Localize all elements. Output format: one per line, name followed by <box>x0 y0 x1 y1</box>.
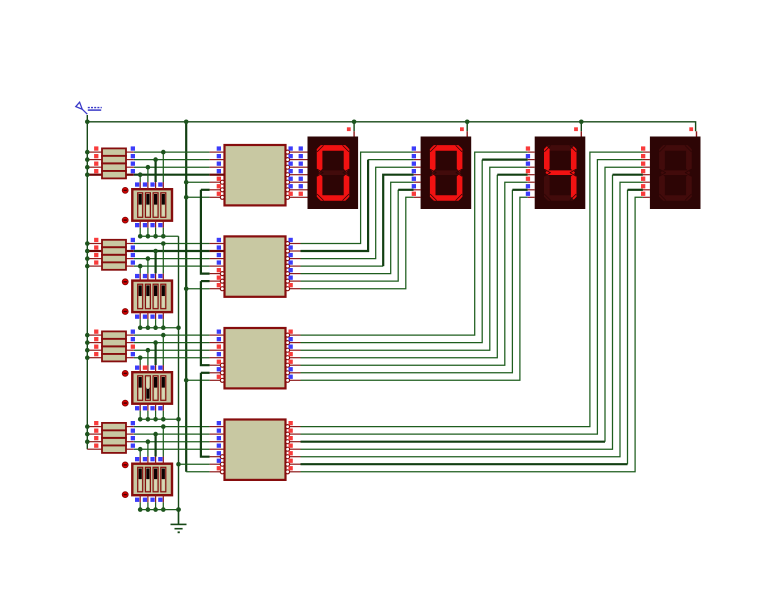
wire: input line D4 resistor to decoder <box>134 448 210 450</box>
resistor R3 <box>87 164 134 171</box>
wire: U2 output A to display DS2 segment <box>301 152 414 243</box>
resistor R2 <box>87 156 134 163</box>
resistor R12 <box>87 354 134 361</box>
junction: top rail / display DS2 <box>465 120 470 125</box>
junction: left rail / R6 <box>85 249 90 254</box>
pin 9 of U4 (output B) <box>286 429 301 437</box>
junction: top rail / power drop <box>184 120 189 125</box>
wire: input line A2 resistor to decoder <box>134 243 210 245</box>
junction: DIP SW1 pin 4 / input line <box>161 150 166 155</box>
wire: U2 pin7 to power rail <box>186 288 209 290</box>
wire: DIP SW4 pin 8 to ground bus <box>162 495 164 509</box>
wire: U1 output F to display DS1 segment <box>300 189 302 191</box>
wire: DIP SW4 pin 2 to input line <box>147 442 149 464</box>
wire: top horizontal power rail <box>87 122 695 132</box>
wire: U3 output C to display DS3 segment <box>301 167 528 350</box>
wire: ripple blanking chain into U3 pin5 <box>201 281 210 365</box>
pin 3 of U3 (left) <box>210 345 225 351</box>
wire: DIP SW2 pin 6 to ground bus <box>147 312 149 328</box>
wire: ripple blanking chain into U2 pin5 <box>201 190 210 274</box>
pin 5 of U1 (left) <box>210 177 225 185</box>
DIP switch SW4 actuator buttons <box>122 462 128 498</box>
wire: input line D1 resistor to decoder <box>134 174 210 176</box>
junction: left rail / R14 <box>85 432 90 437</box>
junction: DIP SW2 pin 1 / input line <box>138 264 143 269</box>
wire: U1 output B to display DS1 segment <box>300 159 302 161</box>
wire: input line B1 resistor to decoder <box>134 159 210 161</box>
node: DIP SW4 bottom state squares <box>135 498 163 502</box>
pin 14 of U1 (output G) <box>286 192 301 200</box>
wire: U3 output A to display DS3 segment <box>301 152 528 335</box>
pin 10 of U3 (output C) <box>286 345 301 353</box>
junction: DIP SW4 pin 5 / ground bus <box>138 507 143 512</box>
junction: left rail / R13 <box>85 424 90 429</box>
pin 7 of U4 (left) <box>210 466 225 474</box>
node: resistor input state squares group 4 <box>94 421 98 448</box>
wire: input line C2 resistor to decoder <box>134 258 210 260</box>
junction: top rail / display DS1 <box>352 120 357 125</box>
pin 9 of U2 (output B) <box>286 245 301 253</box>
pin 2 of U3 (left) <box>210 337 225 343</box>
7-segment display DS1 <box>308 137 359 210</box>
pin 9 of U1 (output B) <box>286 154 301 162</box>
wire: DIP SW1 pin 2 to input line <box>147 167 149 189</box>
pin 1 of U3 (left) <box>210 330 225 336</box>
pin 11 of U1 (output D) <box>286 169 301 177</box>
node: display DS3 segment pin stubs <box>526 146 535 197</box>
node: DIP SW2 bottom state squares <box>135 315 163 319</box>
junction: left rail / R15 <box>85 439 90 444</box>
wire: input line A1 resistor to decoder <box>134 151 210 153</box>
wire: U3 pin7 to power rail <box>186 379 209 381</box>
7-segment display DS4 <box>650 137 701 210</box>
pin 12 of U3 (output E) <box>286 360 301 368</box>
resistor R8 <box>87 262 134 269</box>
wire: DIP SW2 pin 2 to input line <box>147 259 149 281</box>
junction: DIP SW1 pin 8 / ground bus <box>161 234 166 239</box>
junction: DIP SW3 pin 1 / input line <box>138 355 143 360</box>
wire: U4 output F to display DS4 segment <box>301 190 643 464</box>
decoder IC U2 (BCD to 7-segment) <box>225 236 286 296</box>
resistor R6 <box>87 247 134 254</box>
wire: DIP SW2 pin 3 to input line <box>155 251 157 281</box>
node: DIP SW3 top state squares <box>135 366 163 370</box>
junction: DIP SW4 pin 6 / ground bus <box>146 507 151 512</box>
wire: U1 pin7 to power rail <box>186 196 209 198</box>
junction: left rail / R1 <box>85 150 90 155</box>
node: DIP SW1 bottom state squares <box>135 223 163 227</box>
junction: DIP SW2 pin 5 / ground bus <box>138 325 143 330</box>
pin 4 of U4 (left) <box>210 444 225 450</box>
wire: U4 pin6 to ground rail <box>179 463 210 465</box>
wire: DIP SW3 pin 6 to ground bus <box>147 404 149 420</box>
wire: U3 output B to display DS3 segment <box>301 160 528 343</box>
pin 2 of U2 (left) <box>210 245 225 251</box>
wire: U4 output A to display DS4 segment <box>301 152 643 427</box>
pin 11 of U3 (output D) <box>286 352 301 360</box>
node: resistor input state squares group 1 <box>94 146 98 173</box>
junction: DIP SW2 pin 7 / ground bus <box>153 325 158 330</box>
node: resistor output state squares group 3 <box>131 330 135 357</box>
junction: left rail / R8 <box>85 264 90 269</box>
pin 1 of U2 (left) <box>210 238 225 244</box>
pin 6 of U2 (left) <box>210 276 225 284</box>
junction: left rail / R4 <box>85 172 90 177</box>
pin 14 of U3 (output G) <box>286 375 301 383</box>
wire: U2 output B to display DS2 segment <box>301 160 414 251</box>
resistor R9 <box>87 331 134 338</box>
pin 3 of U1 (left) <box>210 162 225 168</box>
DIP switch SW1 actuator buttons <box>122 188 128 224</box>
wire: DIP SW3 pin 1 to input line <box>139 358 141 373</box>
pin 5 of U3 (left) <box>210 360 225 368</box>
wire: DIP SW4 pin 7 to ground bus <box>155 495 157 509</box>
wire: U1 output E to display DS1 segment <box>300 181 302 183</box>
wire: DIP SW3 pin 4 to input line <box>162 335 164 372</box>
wire: display DS1 common anode to top rail <box>347 122 354 137</box>
wire: U1 output G to display DS1 segment <box>300 196 302 198</box>
DIP switch SW2 <box>132 281 172 313</box>
junction: top rail / display DS3 <box>579 120 584 125</box>
wire: input line C4 resistor to decoder <box>134 441 210 443</box>
wire: U4 output C to display DS4 segment <box>301 167 643 442</box>
wire: U4 output B to display DS4 segment <box>301 160 643 435</box>
wire: DIP SW3 pin 3 to input line <box>155 343 157 373</box>
wire: DIP SW2 ground bus horizontal <box>140 327 178 329</box>
junction: left rail / R2 <box>85 157 90 162</box>
junction: DIP SW1 pin 2 / input line <box>146 165 151 170</box>
wire: U3 output D to display DS3 segment <box>301 175 528 358</box>
wire: U4 output E to display DS4 segment <box>301 182 643 457</box>
voltage probe <box>76 102 88 114</box>
wire: DIP SW1 pin 6 to ground bus <box>147 221 149 237</box>
junction: DIP SW4 pin 3 / input line <box>153 432 158 437</box>
junction: DIP SW1 pin 6 / ground bus <box>146 234 151 239</box>
wire: DIP SW2 pin 7 to ground bus <box>155 312 157 328</box>
wire: U3 output E to display DS3 segment <box>301 182 528 365</box>
junction: left rail / R7 <box>85 256 90 261</box>
pin 13 of U3 (output F) <box>286 367 301 375</box>
wire: DIP SW3 ground bus horizontal <box>140 418 178 420</box>
wire: DIP SW1 pin 1 to input line <box>139 175 141 190</box>
wire: DIP SW4 pin 6 to ground bus <box>147 495 149 509</box>
pin 7 of U1 (left) <box>210 192 225 200</box>
junction: left rail / R5 <box>85 241 90 246</box>
pin 6 of U1 (left) <box>210 184 225 192</box>
junction: DIP SW3 pin 7 / ground bus <box>153 417 158 422</box>
wire: DIP SW4 pin 4 to input line <box>162 427 164 464</box>
pin 1 of U4 (left) <box>210 421 225 427</box>
DIP switch SW3 actuator buttons <box>122 371 128 407</box>
pin 14 of U4 (output G) <box>286 466 301 474</box>
junction: left rail / R11 <box>85 348 90 353</box>
wire: U2 output C to display DS2 segment <box>301 167 414 258</box>
pin 2 of U4 (left) <box>210 429 225 435</box>
pin 14 of U2 (output G) <box>286 283 301 291</box>
junction: ground bus 3 / ground rail <box>176 417 181 422</box>
pin 12 of U2 (output E) <box>286 268 301 276</box>
junction: ground bus 2 / ground rail <box>176 325 181 330</box>
junction: DIP SW4 pin 1 / input line <box>138 447 143 452</box>
node: resistor output state squares group 4 <box>131 421 135 448</box>
wire: input line B3 resistor to decoder <box>134 342 210 344</box>
wire: U2 output G to display DS2 segment <box>301 197 414 288</box>
probe net label <box>88 108 102 111</box>
wire: U2 output F to display DS2 segment <box>301 190 414 281</box>
junction: left rail / R3 <box>85 165 90 170</box>
wire: DIP SW3 pin 5 to ground bus <box>139 404 141 420</box>
pin 13 of U1 (output F) <box>286 184 301 192</box>
resistor R5 <box>87 240 134 247</box>
node: resistor input state squares group 3 <box>94 330 98 357</box>
wire: DIP SW1 pin 4 to input line <box>162 152 164 189</box>
wire: input line A3 resistor to decoder <box>134 334 210 336</box>
wire: input line A4 resistor to decoder <box>134 426 210 428</box>
pin 13 of U2 (output F) <box>286 276 301 284</box>
wire: U1 output A to display DS1 segment <box>300 151 302 153</box>
junction: left rail / R16 <box>0 0 1 1</box>
pin 13 of U4 (output F) <box>286 459 301 467</box>
wire: DIP SW2 pin 5 to ground bus <box>139 312 141 328</box>
DIP switch SW1 <box>132 189 172 221</box>
pin 8 of U1 (output A) <box>286 146 301 154</box>
wire: DIP SW3 pin 7 to ground bus <box>155 404 157 420</box>
wire: power drop rail <box>185 122 187 472</box>
resistor R4 <box>87 171 134 178</box>
node: DIP SW4 top state squares <box>135 457 163 461</box>
pin 8 of U4 (output A) <box>286 421 301 429</box>
resistor R1 <box>87 148 134 155</box>
wire: U4 output D to display DS4 segment <box>301 175 643 450</box>
node: resistor output state squares group 2 <box>131 238 135 265</box>
junction: DIP SW3 pin 3 / input line <box>153 340 158 345</box>
junction: ground rail / U4 pin6 <box>176 462 181 467</box>
junction: DIP SW3 pin 4 / input line <box>161 333 166 338</box>
pin 7 of U2 (left) <box>210 283 225 291</box>
junction: DIP SW4 pin 2 / input line <box>146 439 151 444</box>
wire: DIP SW3 pin 2 to input line <box>147 350 149 372</box>
pin 5 of U4 (left) <box>210 451 225 459</box>
wire: DIP SW4 ground bus horizontal <box>140 509 178 511</box>
junction: DIP SW3 pin 5 / ground bus <box>138 417 143 422</box>
wire: input line D3 resistor to decoder <box>134 357 210 359</box>
junction: DIP SW1 pin 5 / ground bus <box>138 234 143 239</box>
resistor R16 <box>87 446 134 453</box>
junction: DIP SW3 pin 2 / input line <box>146 348 151 353</box>
pin 11 of U2 (output D) <box>286 260 301 268</box>
resistor R7 <box>87 255 134 262</box>
wire: ground rail <box>178 236 180 524</box>
wire: input line C3 resistor to decoder <box>134 349 210 351</box>
pin 6 of U3 (left) <box>210 367 225 375</box>
decoder IC U1 (BCD to 7-segment) <box>225 145 286 205</box>
wire: DIP SW3 pin 8 to ground bus <box>162 404 164 420</box>
wire: DIP SW1 pin 5 to ground bus <box>139 221 141 237</box>
node: DIP SW2 top state squares <box>135 274 163 278</box>
wire: DIP SW4 pin 3 to input line <box>155 434 157 464</box>
node: resistor output state squares group 1 <box>131 146 135 173</box>
resistor R13 <box>87 423 134 430</box>
resistor R11 <box>87 347 134 354</box>
7-segment display DS2 <box>421 137 472 210</box>
junction: power rail / U3 pin7 <box>184 378 189 383</box>
pin 7 of U3 (left) <box>210 375 225 383</box>
pin 5 of U2 (left) <box>210 268 225 276</box>
wire: U1 pin5 to power rail <box>186 181 209 183</box>
wire: DIP SW1 pin 8 to ground bus <box>162 221 164 237</box>
junction: DIP SW1 pin 1 / input line <box>138 172 143 177</box>
pin 3 of U4 (left) <box>210 436 225 442</box>
junction: DIP SW4 pin 8 / ground bus <box>161 507 166 512</box>
pin 6 of U4 (left) <box>210 459 225 467</box>
pin 2 of U1 (left) <box>210 154 225 160</box>
wire: input line B2 resistor to decoder <box>134 250 210 252</box>
node: display DS2 segment pin stubs <box>412 146 421 197</box>
wire: U4 output G to display DS4 segment <box>301 197 643 472</box>
resistor R14 <box>87 430 134 437</box>
junction: power rail / U2 pin7 <box>184 286 189 291</box>
pin 1 of U1 (left) <box>210 146 225 152</box>
resistor R15 <box>87 438 134 445</box>
pin 9 of U3 (output B) <box>286 337 301 345</box>
junction: DIP SW2 pin 2 / input line <box>146 256 151 261</box>
pin 10 of U1 (output C) <box>286 162 301 170</box>
wire: DIP SW1 pin 3 to input line <box>155 160 157 190</box>
junction: DIP SW3 pin 8 / ground bus <box>161 417 166 422</box>
junction: DIP SW3 pin 6 / ground bus <box>146 417 151 422</box>
wire: U3 pin6 ripple blanking out <box>201 372 210 374</box>
wire: U3 output F to display DS3 segment <box>301 190 528 373</box>
wire: DIP SW1 pin 7 to ground bus <box>155 221 157 237</box>
junction: DIP SW2 pin 3 / input line <box>153 249 158 254</box>
node: display DS1 segment pin stubs <box>299 146 308 197</box>
pin 10 of U2 (output C) <box>286 253 301 261</box>
junction: power rail / U1 pin7 <box>184 195 189 200</box>
junction: ground bus 4 / ground rail <box>176 507 181 512</box>
ground <box>171 510 187 534</box>
wire: DIP SW2 pin 4 to input line <box>162 244 164 281</box>
pin 10 of U4 (output C) <box>286 436 301 444</box>
7-segment display DS3 <box>535 137 586 210</box>
pin 4 of U1 (left) <box>210 169 225 175</box>
wire: U2 output D to display DS2 segment <box>301 175 414 266</box>
wire: U3 output G to display DS3 segment <box>301 197 528 380</box>
pin 4 of U3 (left) <box>210 352 225 358</box>
junction: DIP SW1 pin 3 / input line <box>153 157 158 162</box>
node: DIP SW3 bottom state squares <box>135 406 163 410</box>
node: DIP SW1 top state squares <box>135 182 163 186</box>
pin 8 of U3 (output A) <box>286 330 301 338</box>
wire: DIP SW1 ground bus horizontal <box>140 235 178 237</box>
decoder IC U3 (BCD to 7-segment) <box>225 328 286 388</box>
pin 12 of U1 (output E) <box>286 177 301 185</box>
wire: input line C1 resistor to decoder <box>134 166 210 168</box>
wire: U1 output C to display DS1 segment <box>300 166 302 168</box>
junction: DIP SW4 pin 4 / input line <box>161 424 166 429</box>
pin 11 of U4 (output D) <box>286 444 301 452</box>
DIP switch SW4 <box>132 464 172 496</box>
wire: DIP SW4 pin 5 to ground bus <box>139 495 141 509</box>
decoder IC U4 (BCD to 7-segment) <box>225 420 286 480</box>
junction: left rail / R9 <box>85 333 90 338</box>
wire: U4 pin7 from power rail end <box>186 471 209 473</box>
wire: ripple blanking chain into U4 pin5 <box>201 373 210 457</box>
wire: display DS3 common anode to top rail <box>574 122 581 137</box>
wire: DIP SW2 pin 8 to ground bus <box>162 312 164 328</box>
wire: U2 output E to display DS2 segment <box>301 182 414 273</box>
node: display DS4 segment pin stubs <box>641 146 650 197</box>
wire: input line B4 resistor to decoder <box>134 433 210 435</box>
wire: U1 output D to display DS1 segment <box>300 174 302 176</box>
wire: display DS4 common anode to top rail <box>689 127 696 136</box>
wire: U2 pin6 ripple blanking out <box>201 280 210 282</box>
junction: DIP SW4 pin 7 / ground bus <box>153 507 158 512</box>
junction: probe / top rail <box>85 120 90 125</box>
DIP switch SW2 actuator buttons <box>122 279 128 315</box>
pin 3 of U2 (left) <box>210 253 225 259</box>
junction: power rail / U1 pin5 <box>184 180 189 185</box>
wire: display DS2 common anode to top rail <box>460 122 467 137</box>
resistor R10 <box>87 339 134 346</box>
junction: DIP SW1 pin 7 / ground bus <box>153 234 158 239</box>
pin 8 of U2 (output A) <box>286 238 301 246</box>
junction: left rail / R10 <box>85 340 90 345</box>
pin 12 of U4 (output E) <box>286 451 301 459</box>
wire: DIP SW2 pin 1 to input line <box>139 266 141 281</box>
wire: DIP SW4 pin 1 to input line <box>139 449 141 464</box>
junction: DIP SW2 pin 8 / ground bus <box>161 325 166 330</box>
DIP switch SW3 <box>132 372 172 404</box>
junction: DIP SW2 pin 6 / ground bus <box>146 325 151 330</box>
pin 4 of U2 (left) <box>210 260 225 266</box>
node: resistor input state squares group 2 <box>94 238 98 265</box>
wire: U1 pin6 ripple blanking out <box>201 189 210 191</box>
wire: left vertical rail <box>86 115 88 449</box>
wire: input line D2 resistor to decoder <box>134 265 210 267</box>
junction: left rail / R12 <box>85 355 90 360</box>
junction: DIP SW2 pin 4 / input line <box>161 241 166 246</box>
